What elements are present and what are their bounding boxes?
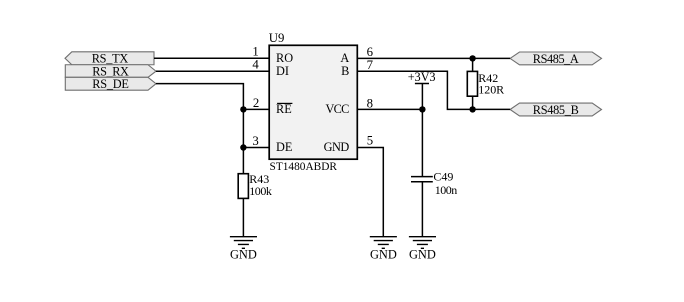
svg-text:RE: RE <box>276 102 292 116</box>
svg-text:ST1480ABDR: ST1480ABDR <box>270 159 338 173</box>
wire +3V3 down through VCC node to C49 <box>421 84 423 177</box>
svg-text:VCC: VCC <box>326 102 350 116</box>
svg-text:DI: DI <box>276 64 289 78</box>
svg-text:100k: 100k <box>249 184 272 198</box>
wire RS_TX to pin1 RO <box>154 57 269 59</box>
junction node B/R42 <box>469 106 475 112</box>
wire R43 to ground <box>242 198 244 236</box>
svg-text:RS_TX: RS_TX <box>92 52 129 66</box>
svg-text:3: 3 <box>252 134 258 148</box>
svg-text:GND: GND <box>230 248 257 262</box>
svg-text:1: 1 <box>252 45 258 59</box>
wire R42 bottom stub <box>472 96 474 109</box>
wire pin7 B to RS485_B <box>357 71 510 109</box>
svg-text:B: B <box>341 64 349 78</box>
svg-text:GND: GND <box>324 140 350 154</box>
junction node pin3/R43 <box>240 144 246 150</box>
wire node to pin2 RE <box>243 108 269 110</box>
svg-text:U9: U9 <box>269 31 285 45</box>
svg-text:6: 6 <box>367 45 374 59</box>
svg-text:GND: GND <box>370 248 397 262</box>
wire pin5 GND to ground <box>357 148 383 237</box>
resistor R42 <box>467 71 504 97</box>
svg-text:C49: C49 <box>433 170 453 184</box>
ground GND under C49 <box>409 237 436 262</box>
svg-text:RS_DE: RS_DE <box>92 77 129 91</box>
svg-text:4: 4 <box>252 58 259 72</box>
wire RS_DE down to R43 <box>156 84 243 174</box>
port RS485_A <box>510 52 601 66</box>
wire C49 to ground <box>421 182 423 237</box>
port RS485_B <box>510 103 601 117</box>
svg-text:GND: GND <box>409 248 436 262</box>
svg-text:DE: DE <box>276 140 292 154</box>
svg-text:RS485_A: RS485_A <box>533 52 579 66</box>
svg-text:120R: 120R <box>478 83 504 97</box>
svg-text:RO: RO <box>276 51 293 65</box>
svg-text:+3V3: +3V3 <box>408 70 436 84</box>
wire node to pin3 DE <box>243 147 269 149</box>
junction node pin2/RS_DE <box>240 106 246 112</box>
svg-text:2: 2 <box>253 96 259 110</box>
wire R42 top stub <box>472 58 474 71</box>
pin label RE (active low) <box>276 102 292 116</box>
junction node A/R42 <box>469 55 475 61</box>
port RS_TX <box>65 52 154 66</box>
ground GND under pin5 <box>370 237 397 262</box>
svg-text:7: 7 <box>367 58 374 72</box>
port RS_RX <box>65 65 156 79</box>
svg-text:RS485_B: RS485_B <box>533 103 579 117</box>
wire RS_RX to pin4 DI <box>156 70 269 72</box>
port RS_DE <box>65 77 156 91</box>
wire pin6 A to RS485_A <box>357 57 510 59</box>
power +3V3 <box>408 70 436 84</box>
wire pin8 VCC to +3V3 <box>357 108 422 110</box>
resistor R43 <box>238 172 272 198</box>
svg-text:A: A <box>340 51 349 65</box>
svg-text:100n: 100n <box>435 183 458 197</box>
svg-text:5: 5 <box>367 134 373 148</box>
IC U9 ST1480ABDR body <box>269 45 357 159</box>
svg-text:8: 8 <box>367 96 373 110</box>
capacitor C49 <box>411 170 457 197</box>
junction node VCC/+3V3 <box>419 106 425 112</box>
ground GND under R43 <box>230 237 257 262</box>
